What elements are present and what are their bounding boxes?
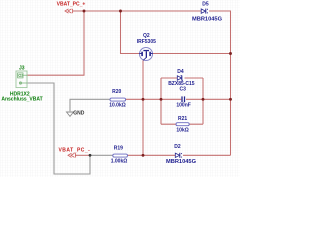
net flag VBAT_PC_+: [57, 2, 86, 14]
svg-text:VBAT_PC_+: VBAT_PC_+: [57, 2, 86, 8]
wire from top rail down to Q2 drain: [121, 11, 140, 54]
junction top rail to Q2: [119, 10, 122, 13]
wire bottom: R19 right pin to D2 and right rail: [128, 154, 231, 156]
wire top rail right of D5 and right vertical rail down: [209, 11, 231, 155]
svg-text:D5: D5: [202, 1, 209, 7]
connector J3 HDR1X2 Anschluss_VBAT: [1, 65, 42, 102]
svg-text:10.0kΩ: 10.0kΩ: [109, 103, 126, 109]
wire R20 right pin to gate node and to zener network: [126, 98, 182, 100]
wire Q2 source to right rail: [153, 53, 231, 55]
wire R21 branch: [161, 123, 203, 125]
junction network output at right rail: [229, 98, 232, 101]
svg-text:C3: C3: [179, 87, 186, 93]
svg-text:Anschluss_VBAT: Anschluss_VBAT: [1, 97, 42, 103]
junction gate chain at R19 wire: [142, 154, 145, 157]
wire VBAT_PC_- flag to junction: [75, 154, 90, 156]
junction right rail of network: [202, 98, 205, 101]
wire ground branch to R20 left pin: [70, 99, 110, 111]
net flag VBAT_PC_-: [58, 148, 90, 158]
wire GND net: J3 pin 2 down and around to VBAT_PC_- node: [27, 83, 91, 174]
svg-text:R19: R19: [114, 145, 123, 151]
svg-text:IRF5305: IRF5305: [137, 39, 156, 45]
resistor R21 10k: [176, 116, 189, 133]
svg-text:1.00kΩ: 1.00kΩ: [111, 159, 128, 165]
junction gate node at R20 wire: [142, 98, 145, 101]
svg-text:D2: D2: [174, 144, 181, 150]
svg-text:GND: GND: [73, 110, 85, 116]
svg-text:J3: J3: [19, 65, 25, 71]
svg-text:100nF: 100nF: [176, 102, 190, 108]
svg-text:VBAT_PC_-: VBAT_PC_-: [58, 148, 90, 154]
junction Q2 source at right rail: [229, 52, 232, 55]
svg-text:10kΩ: 10kΩ: [176, 127, 188, 133]
junction VBAT_PC_- node: [89, 154, 92, 157]
transistor Q2 IRF5305 p-mosfet: [137, 33, 156, 61]
svg-text:MBR1045G: MBR1045G: [166, 159, 197, 165]
capacitor C3 100nF: [176, 87, 190, 109]
wire from top rail down to J3 pin 1: [27, 11, 85, 75]
wire Q2 gate down to node at R20 and on to R19 node: [142, 60, 144, 155]
svg-text:Q2: Q2: [143, 33, 150, 39]
wire C3 right plate to right rail: [186, 98, 231, 100]
svg-text:MBR1045G: MBR1045G: [192, 16, 223, 22]
wire D4 branch: [161, 77, 203, 79]
diode D4 zener BZX85-C15: [168, 69, 195, 87]
svg-text:D4: D4: [177, 69, 184, 75]
wire VBAT_PC_- node to R19 left pin: [90, 154, 113, 156]
svg-text:R21: R21: [178, 116, 187, 122]
junction left rail of network: [160, 98, 163, 101]
resistor R20 10.0k: [109, 89, 126, 109]
resistor R19 1.00k: [111, 145, 128, 164]
svg-text:R20: R20: [112, 89, 121, 95]
diode D2 MBR1045G: [166, 144, 197, 165]
wire top rail VBAT_PC_+ from flag to D5: [73, 10, 202, 12]
diode D5 MBR1045G: [192, 1, 223, 22]
junction top rail to J3: [83, 10, 86, 13]
wire left rail of parallel network: [160, 78, 162, 124]
ground symbol: [67, 110, 85, 116]
wire right rail of parallel network: [202, 78, 204, 124]
